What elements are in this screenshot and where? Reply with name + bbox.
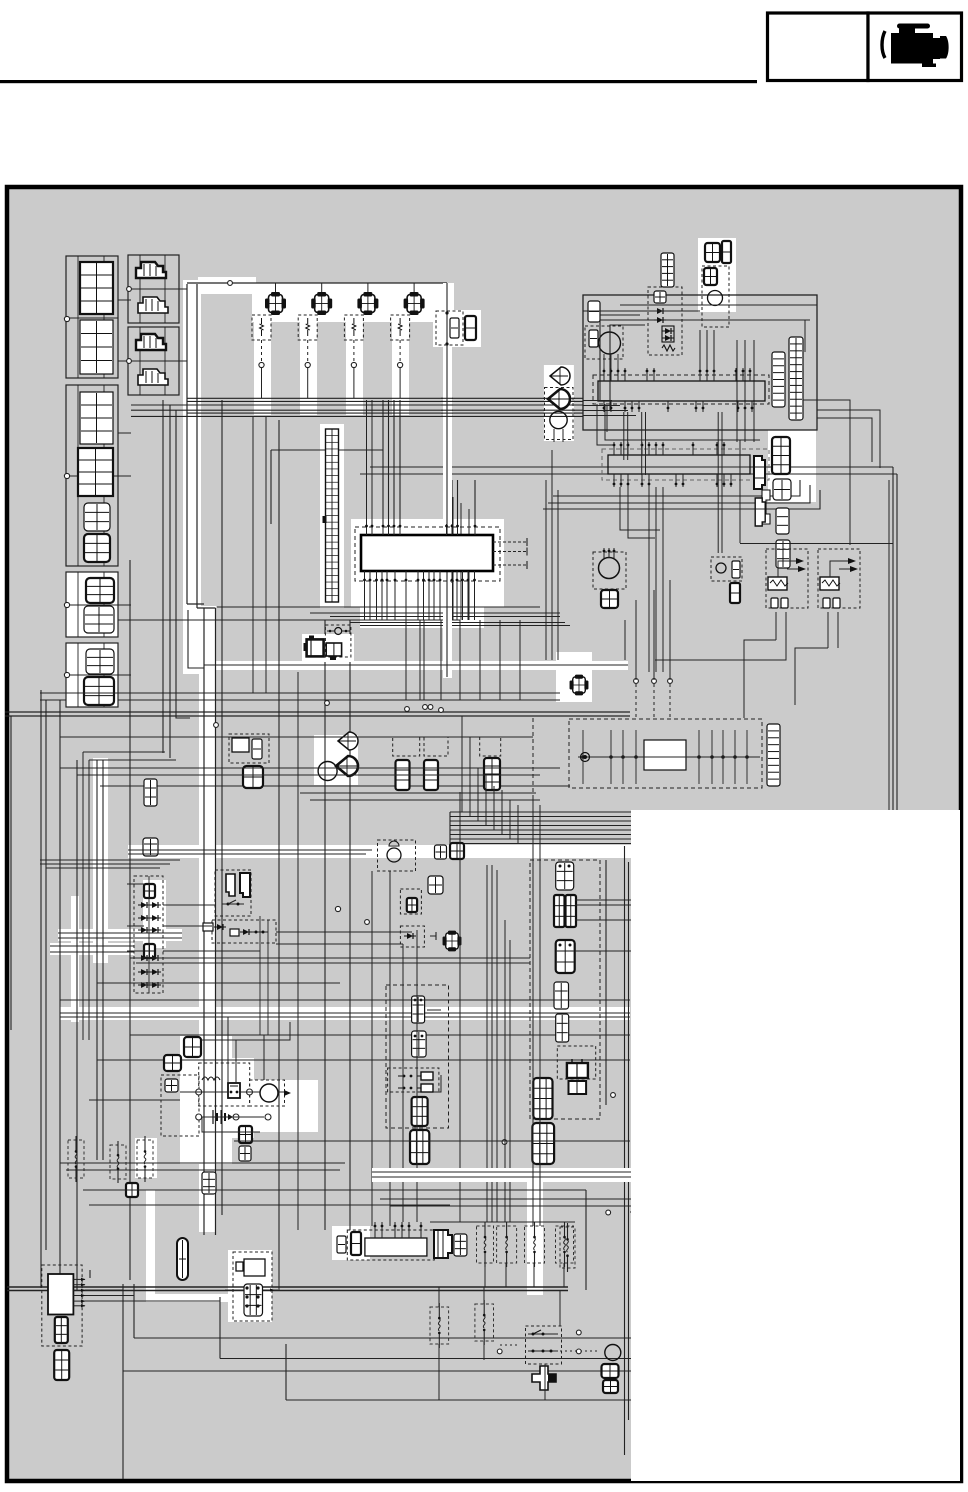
junction node J3 bbox=[423, 705, 428, 710]
br cross part bbox=[532, 1366, 556, 1390]
connector frame G3 bbox=[66, 572, 118, 637]
white band 1168 bbox=[372, 1168, 631, 1182]
connector H1 lower bbox=[138, 297, 168, 313]
wire h 768 bbox=[60, 767, 560, 769]
lh conn 2 bbox=[412, 1031, 427, 1057]
white patch bottom conn row bbox=[332, 1226, 370, 1260]
isc comp black bbox=[304, 636, 324, 657]
wire relay area drops bbox=[743, 700, 745, 718]
fuel pump pins bbox=[603, 548, 616, 558]
white channel left vertical bbox=[93, 758, 108, 963]
tr cdi dashed bbox=[585, 326, 623, 359]
starter conn b bbox=[239, 1146, 251, 1161]
wire bundle h4 bbox=[131, 415, 583, 417]
wire ecu right bundle v bbox=[447, 480, 476, 524]
ignition coil 1 bbox=[265, 292, 286, 315]
wire h 932-953 band bbox=[50, 933, 182, 952]
white channel main vertical lower bbox=[199, 606, 216, 1232]
ignition switch dashed bbox=[378, 840, 416, 871]
meter bar pins top bbox=[603, 368, 752, 381]
wire overlay bundle bbox=[450, 812, 631, 844]
wire mid v2 bbox=[324, 620, 326, 1230]
white patch battery area bbox=[180, 1036, 232, 1164]
connector G2 upper bbox=[80, 392, 113, 444]
white patch rectifier bbox=[143, 880, 166, 948]
mid grid conn bbox=[143, 838, 158, 856]
spark plug cap 2 bbox=[298, 315, 317, 340]
rh grid bold 1 bbox=[533, 1078, 552, 1119]
wire battery top bbox=[201, 1022, 290, 1040]
junction pre-overlay bbox=[611, 1093, 616, 1098]
horn triangle 2 bbox=[336, 756, 358, 776]
tr cdi legs bbox=[604, 354, 618, 372]
white channel coil drop 3 bbox=[346, 320, 363, 415]
connector frame H1 bbox=[128, 255, 179, 323]
neutral dashed B bbox=[400, 926, 424, 947]
wire double bottom1 bbox=[7, 1286, 568, 1288]
wire coil tails bbox=[253, 368, 400, 693]
wire bar1 bottom drops bbox=[607, 405, 722, 553]
fuse bottom 2 bbox=[497, 1222, 517, 1267]
fuse lower 2 bbox=[475, 1300, 494, 1345]
white patch starter2 bbox=[254, 1080, 318, 1132]
white band left mid2 bbox=[50, 943, 134, 955]
wire tr bottom steps bbox=[597, 404, 760, 445]
node H2 bbox=[127, 359, 132, 364]
bl connector dashed bbox=[42, 1265, 82, 1346]
flasher dashed pair bbox=[393, 737, 448, 756]
wire sidestand top bbox=[636, 580, 670, 630]
white patch starter bbox=[232, 1098, 292, 1132]
wire coil feed top bbox=[187, 282, 447, 284]
wire h 793-800 bbox=[300, 793, 540, 800]
wire tr inner verts2 bbox=[700, 330, 714, 368]
connector G2 small b bbox=[84, 534, 110, 562]
wire v rect area bbox=[260, 916, 268, 1035]
bl conn b bbox=[54, 1350, 69, 1380]
br node 1 bbox=[576, 1330, 581, 1335]
horn circle bbox=[318, 762, 337, 781]
solenoid dashed bbox=[233, 1252, 272, 1321]
ECU right pin 2 bbox=[493, 548, 527, 556]
main harness connector strip bbox=[323, 429, 339, 602]
bl connector body bbox=[48, 1274, 73, 1315]
connector frame G2 bbox=[66, 385, 118, 566]
wire below ecu h616 bbox=[330, 616, 560, 618]
sidestand nodes bbox=[634, 679, 673, 684]
diode block bbox=[134, 876, 163, 993]
wire h 1000 bbox=[60, 999, 630, 1001]
far right dashed bbox=[480, 737, 501, 756]
fuse bottom 3 bbox=[525, 1222, 545, 1267]
battery symbol bbox=[213, 1110, 233, 1124]
br circle comp bbox=[605, 1345, 621, 1361]
spark plug node 4 bbox=[398, 362, 403, 367]
ECU right pin 1 bbox=[493, 538, 527, 546]
wire h fuse top band bbox=[430, 1221, 575, 1223]
meter bar2 dashed bbox=[602, 449, 769, 480]
spark plug lead 3 bbox=[353, 340, 355, 362]
battery node 2 bbox=[247, 1089, 253, 1095]
white channel ecu surround bbox=[351, 519, 504, 607]
white band 1007 bbox=[60, 1007, 630, 1020]
wire main channel right lower bbox=[215, 608, 217, 1235]
rh conn 5 bbox=[556, 1014, 569, 1042]
wire v 460-520 lower bbox=[460, 792, 510, 1222]
neutral dashed A bbox=[400, 889, 421, 914]
mid sensor conn2 bbox=[730, 583, 740, 603]
bc conn left a bbox=[337, 1236, 346, 1253]
bc pins bbox=[374, 1222, 423, 1238]
junction node J5 bbox=[439, 708, 444, 713]
tr circle mid bbox=[708, 291, 723, 306]
bl tbar bbox=[84, 1270, 96, 1278]
wire low h1 bbox=[60, 1012, 630, 1014]
connector G3 upper bbox=[86, 578, 114, 603]
meter bar2 pins top bbox=[613, 442, 726, 455]
junction 216-725 bbox=[214, 723, 219, 728]
header box left bbox=[768, 13, 869, 81]
wire main channel right bbox=[196, 284, 198, 608]
fuel pump connector bbox=[601, 590, 618, 608]
ignition coil 3 bbox=[357, 292, 378, 315]
tilt white strip bbox=[544, 365, 574, 441]
junction node J4 bbox=[428, 705, 433, 710]
wire below ecu h3 bbox=[5, 715, 630, 717]
connector G1 upper bbox=[80, 262, 113, 314]
white strip coil feed bbox=[443, 283, 452, 678]
wire v 533-540 lower bbox=[533, 798, 540, 1226]
connector G2 lower bbox=[78, 448, 113, 496]
white overlay rectangle bbox=[631, 810, 960, 1481]
fuse lower 1 bbox=[430, 1303, 449, 1348]
br node 2 bbox=[576, 1349, 581, 1354]
wire right long v2 bbox=[896, 474, 898, 820]
wire dashed x533 bbox=[532, 718, 534, 798]
wire h 983 bbox=[97, 982, 340, 984]
bc conn right grid bbox=[454, 1234, 467, 1256]
wire ecu h long2 bbox=[360, 473, 897, 475]
battery node 5 bbox=[265, 1114, 271, 1120]
handlebar conn a bbox=[226, 874, 235, 896]
lh sub dashed bbox=[388, 1068, 439, 1092]
bc body bbox=[365, 1238, 427, 1256]
spark plug lead 1 bbox=[261, 340, 263, 362]
wire left v4 bbox=[102, 760, 104, 1160]
coil connector b bbox=[465, 316, 476, 340]
white patch horn area bbox=[314, 735, 358, 785]
wire tr verts continue bbox=[737, 430, 754, 442]
ignition conn pair bbox=[435, 843, 465, 859]
fuse small 3 bbox=[137, 1136, 153, 1182]
wire left column stubs bbox=[118, 289, 187, 675]
wire tr box inner loop2 bbox=[610, 325, 645, 410]
wire h 958 bbox=[130, 958, 530, 963]
isc circle bbox=[327, 628, 350, 635]
spark plug node 3 bbox=[351, 362, 356, 367]
isc dashed bbox=[325, 625, 351, 657]
white patch tr connectors bbox=[698, 238, 736, 312]
wire bottom v5 bbox=[285, 1344, 287, 1400]
tr dashed box mid bbox=[702, 266, 729, 327]
wire bottom v8 bbox=[219, 1297, 221, 1359]
wire below ecu h1 bbox=[97, 619, 460, 621]
battery node 3 bbox=[196, 1114, 202, 1120]
small box left bbox=[126, 1183, 138, 1197]
ECU top pins bbox=[365, 524, 476, 535]
wire low h4 bbox=[97, 1059, 630, 1061]
mid sensor conn bbox=[732, 561, 740, 578]
connector G3 lower bbox=[84, 606, 114, 633]
wire ecu top bundle bbox=[383, 400, 400, 524]
node H1 bbox=[127, 287, 132, 292]
neutral grid A bbox=[407, 898, 417, 912]
wire h 1190 bbox=[83, 1189, 586, 1191]
solenoid grid bbox=[244, 1284, 263, 1316]
fuse small 2 bbox=[110, 1141, 126, 1183]
wire bottom v6 bbox=[122, 1284, 124, 1371]
mid grid conn upper bbox=[144, 779, 157, 806]
battery conn 2 bbox=[164, 1055, 181, 1071]
wire v 740 mid bbox=[739, 440, 741, 543]
mid junction node bbox=[335, 906, 340, 911]
spark plug lead 4 bbox=[399, 340, 401, 362]
lh grid bold 2 bbox=[410, 1130, 429, 1164]
wire tr box inner loop bbox=[600, 315, 640, 400]
isc comp2 bbox=[326, 643, 341, 660]
ignition switch grid bbox=[389, 841, 399, 846]
wire left edge v bbox=[10, 716, 12, 1030]
wire h 1205 bbox=[89, 1204, 450, 1206]
connector frame H2 bbox=[128, 327, 179, 395]
wire ecu step3 bbox=[543, 490, 820, 509]
node G3 bbox=[64, 602, 69, 607]
wire br dots bbox=[500, 1344, 520, 1346]
wire ecu h long1 bbox=[370, 466, 893, 468]
wire battery h 1092 bbox=[180, 1091, 260, 1093]
junction mid3 bbox=[502, 1140, 507, 1145]
br node 3 bbox=[497, 1349, 502, 1354]
white patch tr grids bbox=[768, 430, 816, 502]
wire below ecu h2 bbox=[5, 711, 630, 713]
spark plug node 2 bbox=[305, 362, 310, 367]
wire main channel left bbox=[186, 284, 188, 604]
junction block dashed bbox=[569, 719, 762, 788]
wire mid drops2 bbox=[406, 620, 520, 700]
tilt triangle bold bbox=[548, 389, 570, 409]
tr grid pair mid bbox=[704, 268, 717, 285]
tr top rounded bbox=[722, 241, 731, 263]
start relay body bbox=[232, 738, 249, 752]
clutch plug bbox=[203, 923, 226, 931]
meter bar pins bottom bbox=[603, 401, 754, 412]
wire pre-overlay v1 bbox=[585, 1190, 587, 1290]
white channel left vertical2 bbox=[71, 896, 79, 1022]
wire left elbows bbox=[83, 752, 176, 1040]
relay 2 bbox=[818, 549, 860, 608]
diamond conn mid2 bbox=[443, 931, 462, 952]
wire bottom h5 bbox=[286, 1399, 631, 1401]
connector H1 upper bbox=[136, 262, 166, 278]
wire battery v feeds bbox=[228, 1017, 264, 1083]
wire fuse lower drops bbox=[439, 1287, 484, 1400]
header rule bbox=[0, 80, 757, 83]
fuse bottom 4 bbox=[556, 1222, 574, 1267]
start relay dashed bbox=[229, 734, 269, 763]
handlebar switch dashed bbox=[215, 870, 251, 916]
wire br area v bbox=[545, 1290, 560, 1400]
wire ecu left feed v bbox=[270, 450, 272, 524]
wire dotted mid2 bbox=[630, 1211, 700, 1213]
rh bold comp bbox=[567, 1059, 588, 1078]
wire bundle h1 bbox=[187, 400, 583, 402]
wire below ecu h625 bbox=[360, 625, 570, 627]
meter bar2 body bbox=[608, 455, 750, 474]
rh sub dashed bbox=[557, 1046, 595, 1079]
wire bundle h3b bbox=[187, 412, 583, 414]
junction block dots bbox=[581, 755, 749, 759]
white band left mid bbox=[58, 929, 182, 941]
white patch battery box bbox=[196, 1058, 254, 1138]
node G1 bbox=[64, 316, 69, 321]
white channel coil drop 1 bbox=[254, 320, 271, 415]
white channel ecu pins below bbox=[360, 584, 484, 628]
spark plug node 1 bbox=[259, 362, 264, 367]
wire channel elbow bbox=[187, 603, 204, 605]
wire bottom bl feeds bbox=[85, 1290, 220, 1301]
wire pre-overlay v2 bbox=[605, 860, 607, 1105]
wire left border v bbox=[59, 700, 61, 1287]
tilt crossing wires bbox=[543, 398, 575, 416]
wire relay drop h bbox=[655, 640, 786, 660]
engine icon bbox=[882, 24, 949, 68]
white band mid bbox=[128, 845, 632, 858]
clutch switch dashed bbox=[212, 920, 276, 943]
tr top grid pair bbox=[705, 243, 720, 262]
wire step downs right bbox=[546, 450, 558, 660]
ignition switch circle bbox=[387, 848, 401, 862]
wire col2 drop b bbox=[169, 405, 171, 758]
br node 4 bbox=[606, 1210, 611, 1215]
junction node J1 bbox=[325, 701, 330, 706]
wire low h2 bbox=[60, 1016, 630, 1018]
wire tr box h across bbox=[583, 310, 700, 312]
wire sidestand feeds bbox=[636, 630, 670, 680]
wire v 372-390 bbox=[372, 871, 390, 1226]
wire left drop a bbox=[129, 560, 131, 1280]
relay 1 bbox=[766, 549, 808, 608]
starter motor bbox=[260, 1084, 278, 1102]
wire v 298 bbox=[297, 672, 299, 1230]
br switch dashed bbox=[526, 1326, 562, 1364]
battery conn 3 bbox=[165, 1079, 178, 1092]
left small conn low bbox=[202, 1172, 216, 1194]
wire relay step bbox=[744, 640, 828, 705]
ignition coil 4 bbox=[404, 292, 425, 315]
meter bar dashed bbox=[593, 375, 769, 404]
white channel coil band bbox=[252, 283, 454, 322]
wire bottom h8 bbox=[123, 1370, 631, 1372]
battery dashed big bbox=[161, 1075, 199, 1136]
wire mid v6 bbox=[419, 620, 421, 700]
wire col2 drop a bbox=[162, 400, 164, 753]
wire h 607 bbox=[217, 606, 540, 608]
wire bundle h3 bbox=[131, 409, 583, 411]
tr diode 1 bbox=[654, 291, 666, 303]
wire h 1199 bbox=[380, 1199, 631, 1206]
wire tr verts bbox=[737, 340, 754, 430]
white channel coil band west bbox=[198, 277, 256, 294]
solenoid top box bbox=[236, 1259, 265, 1276]
wire fuse drops bbox=[485, 1263, 564, 1287]
lh switch dashed box bbox=[386, 985, 449, 1128]
spark plug cap 4 bbox=[391, 315, 410, 340]
earth arrow bbox=[284, 1090, 291, 1096]
wire dotted mid bbox=[545, 1350, 600, 1352]
starter relay body bbox=[228, 1083, 240, 1098]
bl connector pins bbox=[73, 1278, 85, 1308]
tr strip grid bbox=[661, 253, 674, 287]
battery node 1 bbox=[196, 1089, 202, 1095]
lh plug a bbox=[398, 1072, 433, 1080]
battery wire h bbox=[202, 1116, 264, 1118]
wire bundle h0 bbox=[187, 397, 583, 399]
wire mid v campaign bbox=[278, 420, 280, 1280]
wire relay feeds bbox=[776, 612, 838, 648]
node G4 bbox=[64, 672, 69, 677]
wire h 665 bbox=[204, 664, 628, 666]
wire h 775 bbox=[77, 774, 540, 776]
equipment box top right bbox=[583, 295, 817, 430]
wire coil feed v bbox=[445, 283, 448, 677]
bl conn a bbox=[55, 1317, 68, 1343]
wire pre-overlay v3 bbox=[624, 846, 626, 1455]
tilt circle bbox=[550, 411, 567, 428]
white band 661 bbox=[203, 661, 628, 670]
wire h 1141 bbox=[234, 1140, 630, 1142]
starter conn a bbox=[239, 1126, 252, 1143]
wire h 693 bbox=[40, 692, 560, 694]
wire ecu bottom drops bbox=[365, 583, 475, 620]
wire low h3 bbox=[130, 1034, 630, 1036]
wire overlay bundle feed bbox=[449, 812, 451, 844]
bar2 bracket conn bbox=[755, 498, 765, 526]
lh conn 1 bbox=[412, 996, 425, 1023]
connector frame G4 bbox=[66, 643, 118, 707]
tr connector small2 bbox=[589, 330, 598, 347]
wire mid v3 bbox=[349, 620, 351, 1230]
ECU right pin 3 bbox=[493, 561, 527, 569]
battery dashed box bbox=[199, 1063, 250, 1106]
starter dashed box bbox=[250, 1080, 285, 1106]
fuse bottom 1 bbox=[477, 1222, 494, 1267]
white L vertical bbox=[146, 1190, 155, 1296]
mid sensor dashed bbox=[711, 557, 742, 581]
wire right long v1 bbox=[892, 467, 894, 830]
wire tr box right loop bbox=[762, 320, 805, 352]
wire mid h5 bbox=[100, 785, 570, 787]
fuse small 1 bbox=[68, 1136, 84, 1182]
tr bracket bbox=[762, 490, 770, 524]
connector frame G1 bbox=[66, 256, 118, 378]
battery node 4 bbox=[233, 1114, 239, 1120]
rh grid bold 2 bbox=[532, 1123, 554, 1164]
wire band lines bbox=[128, 850, 372, 854]
wire col2 drop c bbox=[176, 410, 190, 718]
clutch glyph2 bbox=[230, 929, 268, 936]
white patch bc dashed bbox=[228, 1250, 272, 1322]
fuel pump dashed bbox=[593, 552, 626, 589]
